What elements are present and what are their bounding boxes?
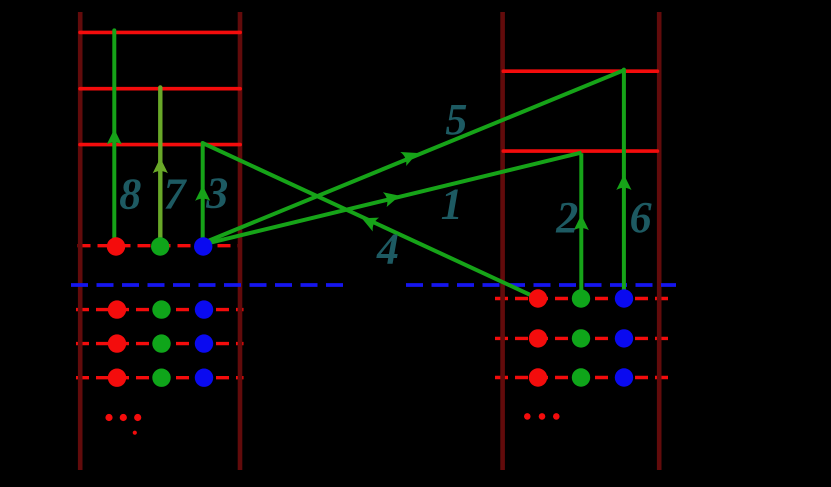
left row 2 blue dot [195,334,213,352]
svg-text:1: 1 [441,180,463,229]
svg-text:7: 7 [164,170,188,219]
arrow 7 line (green dot up to rung 2) [158,87,162,246]
right ladder dashed rung row 2 [495,337,668,340]
left ladder left rail [78,12,83,470]
svg-text:5: 5 [445,95,467,144]
right row 3 green dot [572,368,590,386]
right row 3 red dot [529,368,547,386]
arrowhead 1 [383,188,402,207]
left row 3 blue dot [195,369,213,387]
left ladder rung level 1 [80,31,240,35]
transfer line 5 (left blue dot to right top rung) [207,70,624,241]
left ladder dashed rung row 2 [76,342,244,345]
arrowhead 7 [153,158,168,174]
right row 3 blue dot [615,368,633,386]
arrow 3 line (blue dot up to rung 3) [201,143,205,246]
left ladder dashed rung row 3 [76,376,244,379]
arrowhead 8 [107,129,122,145]
arrowhead 4 [359,211,379,231]
left row 1 red dot [108,300,126,318]
left row 3 red dot [108,369,126,387]
arrowhead 5 [400,146,420,166]
arrow 8 line (red dot up to rung 1) [112,30,116,246]
arrow 6 line (right blue dot up to top rung) [622,70,626,299]
left row 2 red dot [108,334,126,352]
left ladder right rail [238,12,243,470]
right row 2 blue dot [615,329,633,347]
right row 2 green dot [572,329,590,347]
right row 1 blue dot [615,289,633,307]
right row 1 red dot [529,289,547,307]
left ladder dashed rung row 1 [76,308,244,311]
arrowhead 3 [195,185,210,201]
svg-text:2: 2 [555,193,578,242]
right ladder second rung [503,149,657,153]
arrowhead 6 [616,175,631,191]
left row 0 blue dot [194,237,212,255]
svg-text:6: 6 [630,193,652,242]
arrowhead 2 [574,215,589,231]
left ellipsis dots [105,414,112,421]
left ladder rung level 2 [80,87,240,91]
right ladder dashed rung row 1 [495,297,668,300]
svg-text:4: 4 [376,225,399,274]
left ellipsis small dot [133,431,137,435]
svg-text:3: 3 [205,169,228,218]
left row 0 red dot [107,237,125,255]
left ladder dashed rung row 0 [78,244,242,247]
left ladder rung level 3 [80,143,240,147]
right dashed blue threshold line [406,283,676,287]
left row 1 green dot [152,300,170,318]
left row 1 blue dot [195,300,213,318]
left row 3 green dot [152,369,170,387]
right ellipsis dots [524,413,531,420]
transfer line 1 (left blue dot to right rung 2) [208,153,581,244]
left row 0 green dot [151,237,169,255]
transfer line 4 (right red dot to left rung 3) [203,143,538,298]
right ladder left rail [500,12,505,470]
right ladder top rung [503,69,657,73]
left dashed blue threshold line [71,283,344,287]
right row 2 red dot [529,329,547,347]
right ladder dashed rung row 3 [495,376,668,379]
svg-text:8: 8 [119,170,141,219]
right ladder right rail [657,12,662,470]
right row 1 green dot [572,289,590,307]
arrow 2 line (right green dot up to rung) [579,153,583,298]
left row 2 green dot [152,334,170,352]
